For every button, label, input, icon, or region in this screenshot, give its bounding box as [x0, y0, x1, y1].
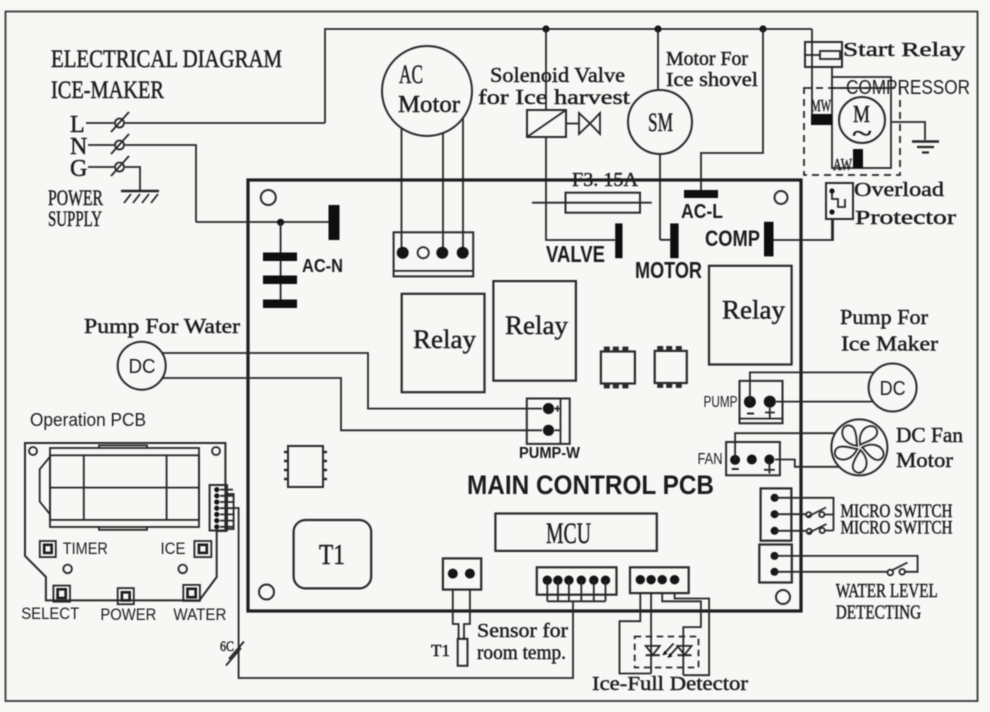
svg-text:~: ~ [852, 119, 872, 148]
svg-text:MAIN CONTROL PCB: MAIN CONTROL PCB [467, 470, 714, 500]
svg-text:Ice shovel: Ice shovel [666, 69, 758, 91]
svg-text:TIMER: TIMER [63, 539, 108, 558]
svg-text:T1: T1 [431, 641, 450, 660]
svg-text:DC: DC [129, 356, 156, 378]
svg-text:ELECTRICAL DIAGRAM: ELECTRICAL DIAGRAM [51, 46, 282, 73]
svg-text:AC-N: AC-N [302, 256, 343, 276]
svg-text:Solenoid Valve: Solenoid Valve [490, 63, 625, 87]
svg-text:Motor: Motor [398, 92, 460, 118]
svg-text:for Ice harvest: for Ice harvest [478, 85, 630, 109]
svg-text:Operation PCB: Operation PCB [30, 410, 146, 430]
svg-text:6C: 6C [220, 639, 234, 655]
svg-text:MW: MW [811, 96, 832, 115]
svg-text:ICE-MAKER: ICE-MAKER [51, 77, 164, 104]
svg-text:Ice-Full Detector: Ice-Full Detector [592, 673, 748, 695]
svg-text:AC: AC [399, 60, 423, 89]
svg-text:Sensor for: Sensor for [477, 620, 568, 642]
svg-text:T1: T1 [319, 540, 345, 571]
svg-text:POWER: POWER [100, 605, 156, 624]
svg-text:DETECTING: DETECTING [836, 602, 922, 624]
svg-text:ICE: ICE [161, 539, 186, 558]
svg-text:SM: SM [648, 108, 673, 137]
svg-text:Relay: Relay [722, 296, 785, 325]
svg-text:PUMP-W: PUMP-W [519, 445, 581, 462]
svg-text:Overload: Overload [854, 179, 944, 201]
svg-text:Motor: Motor [896, 448, 953, 472]
svg-text:Relay: Relay [413, 325, 476, 354]
svg-text:SUPPLY: SUPPLY [48, 206, 102, 231]
svg-text:COMP: COMP [705, 226, 760, 251]
svg-text:G: G [70, 156, 87, 182]
svg-text:Pump For Water: Pump For Water [84, 314, 240, 338]
svg-text:Relay: Relay [505, 311, 568, 340]
svg-text:room temp.: room temp. [477, 642, 566, 664]
svg-text:AC-L: AC-L [681, 201, 723, 223]
svg-text:Motor For: Motor For [666, 48, 748, 70]
svg-text:Protector: Protector [855, 207, 956, 229]
svg-text:DC Fan: DC Fan [896, 423, 963, 447]
svg-text:WATER LEVEL: WATER LEVEL [836, 580, 938, 602]
svg-text:MOTOR: MOTOR [635, 257, 702, 283]
svg-text:SELECT: SELECT [21, 604, 79, 623]
svg-text:Start Relay: Start Relay [843, 39, 965, 61]
svg-text:Pump For: Pump For [840, 305, 928, 329]
svg-text:MCU: MCU [546, 517, 591, 550]
svg-text:PUMP: PUMP [704, 394, 738, 411]
svg-text:MICRO SWITCH: MICRO SWITCH [841, 518, 953, 539]
svg-text:WATER: WATER [173, 605, 226, 624]
svg-text:DC: DC [880, 378, 906, 400]
svg-text:FAN: FAN [698, 451, 723, 468]
svg-text:VALVE: VALVE [546, 241, 605, 267]
svg-text:AW: AW [833, 155, 853, 174]
svg-text:Ice Maker: Ice Maker [841, 332, 938, 356]
